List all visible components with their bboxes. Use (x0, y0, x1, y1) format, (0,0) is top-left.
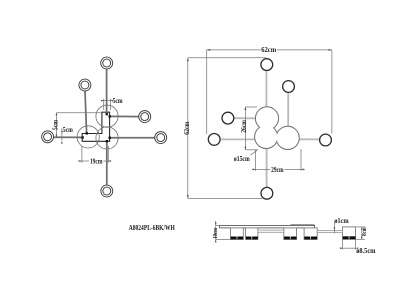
lamp ring bottom (101, 185, 113, 197)
dim 29cm left extension (255, 150, 257, 171)
arrow o1cm (334, 227, 336, 230)
lamp ring lower-right (155, 132, 167, 144)
wire down arm (106, 141, 108, 185)
lamp ring upper-left (79, 79, 91, 91)
wire down arm (266, 148, 268, 188)
svg-text:62cm: 62cm (261, 46, 276, 54)
node upper-right (109, 115, 111, 117)
dim 10cm line (215, 221, 217, 241)
wire upper-right arm (110, 115, 139, 117)
lamp body 2 (246, 228, 258, 240)
lobe circle top (96, 105, 118, 127)
dim 19cm extension lines (81, 146, 83, 163)
lamp 4 black band (304, 237, 317, 240)
lamp body 4 (304, 228, 317, 240)
svg-text:8cm: 8cm (361, 227, 368, 236)
arrows second 5cm (61, 131, 63, 134)
svg-text:5cm: 5cm (51, 120, 59, 130)
wire upper-left arm (85, 91, 87, 133)
lamp body 3 (284, 228, 297, 240)
wire upper-right arm (287, 93, 289, 127)
lamp head left (208, 134, 220, 146)
dim 62cm top right extension (331, 50, 333, 134)
connector tube 2 (317, 230, 342, 232)
node left (81, 136, 83, 138)
wire right arm (299, 138, 320, 140)
lamp head bottom (261, 187, 273, 199)
arrows 26cm (244, 107, 246, 110)
wire left arm (221, 138, 256, 140)
lamp head upper-right (283, 81, 295, 93)
svg-text:ø15cm: ø15cm (234, 155, 250, 163)
label 29cm (270, 166, 284, 174)
svg-text:62cm: 62cm (183, 122, 191, 135)
dim 10cm top extension (216, 224, 220, 226)
dim o8.5cm right extension (355, 239, 357, 249)
wire upper-left arm (234, 117, 256, 119)
dim 62cm top line (207, 49, 332, 51)
dim 29cm right extension (300, 149, 302, 171)
svg-text:19cm: 19cm (90, 158, 103, 166)
dim 62cm top left extension (206, 50, 208, 134)
lamp ring upper-right (139, 111, 151, 123)
lamp 3 black band (284, 237, 296, 240)
dim rotated 5cm line (55, 113, 57, 137)
lobe circle corner (96, 127, 118, 149)
dim 8cm top extension (356, 226, 365, 228)
dimensions of right figure (188, 50, 332, 199)
dimensions of left figure (56, 99, 112, 163)
connector tube 1 (258, 230, 284, 232)
lobe circle left (77, 126, 99, 148)
svg-text:5cm: 5cm (113, 97, 123, 105)
dim 10cm bottom extension (216, 239, 231, 241)
arrows 8cm (361, 227, 363, 230)
dim 5cm top line (101, 100, 112, 102)
dim 26cm top extension (245, 106, 257, 108)
dim 26cm line (244, 107, 246, 150)
L-bracket body (82, 112, 109, 141)
svg-text:A8024PL-6BK/WH: A8024PL-6BK/WH (129, 224, 175, 232)
label 19cm (89, 158, 103, 166)
svg-text:ø1cm: ø1cm (334, 217, 349, 225)
label 62cm top (261, 46, 277, 54)
svg-text:29cm: 29cm (271, 166, 284, 174)
arrows o8.5cm (340, 247, 343, 249)
lamp body 1 (230, 228, 243, 240)
arrows rotated 5cm (56, 113, 58, 116)
svg-text:10cm: 10cm (212, 228, 219, 239)
lamp 2 black band (246, 237, 258, 240)
lamp head upper-left (222, 112, 234, 124)
mounting plate (220, 225, 315, 228)
leader o15cm (250, 150, 257, 155)
dim 8cm bottom extension (356, 238, 365, 240)
dim rotated 5cm extension line (56, 112, 103, 114)
dimensions of side view (216, 221, 365, 250)
dim 19cm line (78, 160, 111, 162)
dim 29cm line (252, 168, 305, 170)
lamp ring top (101, 57, 113, 69)
dim 62cm left top extension (188, 57, 266, 59)
svg-text:26cm: 26cm (240, 120, 248, 133)
node top (106, 113, 108, 115)
dim second 5cm line (61, 128, 63, 141)
dim 8cm line (361, 227, 363, 239)
plate top line right part (290, 224, 314, 226)
node bottom (106, 140, 108, 142)
dim 62cm left line (187, 58, 189, 199)
arrows 5cm top (101, 100, 104, 102)
arrows 19cm (79, 160, 82, 162)
trefoil outline strokes (255, 107, 299, 149)
lamp 5 black band (343, 236, 356, 239)
svg-text:5cm: 5cm (63, 126, 73, 134)
svg-text:ø8.5cm: ø8.5cm (356, 247, 375, 255)
lamp 1 black band (231, 237, 243, 240)
lamp head top (261, 59, 273, 71)
wire up arm (106, 69, 108, 114)
arrows 29cm (253, 169, 256, 171)
arrows 62cm top (207, 49, 210, 51)
lamp body 5 (343, 227, 356, 239)
arrows 62cm left (187, 58, 189, 61)
node upper-left (86, 132, 88, 134)
leader o1cm (333, 223, 335, 234)
dim 5cm top extension lines (103, 99, 105, 110)
dim o8.5cm left extension (342, 239, 344, 249)
dim 62cm left bottom extension (188, 197, 263, 199)
trefoil white body (255, 107, 299, 149)
dim o8.5cm line (341, 247, 356, 249)
wire left arm (54, 136, 82, 138)
wire up arm (265, 71, 267, 108)
lamp ring left (42, 131, 54, 143)
wire lower-right arm (110, 137, 155, 139)
arrows 10cm (215, 223, 217, 226)
dim 26cm bottom extension (245, 149, 258, 151)
lamp head right (320, 134, 332, 146)
node lower-right (109, 137, 111, 139)
